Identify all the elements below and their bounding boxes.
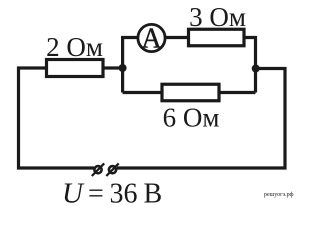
svg-text:решуогэ.рф: решуогэ.рф <box>264 191 294 198</box>
svg-text:6 Ом: 6 Ом <box>163 103 220 133</box>
svg-text:U=36В: U=36В <box>62 178 162 210</box>
svg-text:A: A <box>141 24 162 55</box>
svg-text:3 Ом: 3 Ом <box>189 2 246 32</box>
svg-text:2 Ом: 2 Ом <box>46 32 103 62</box>
